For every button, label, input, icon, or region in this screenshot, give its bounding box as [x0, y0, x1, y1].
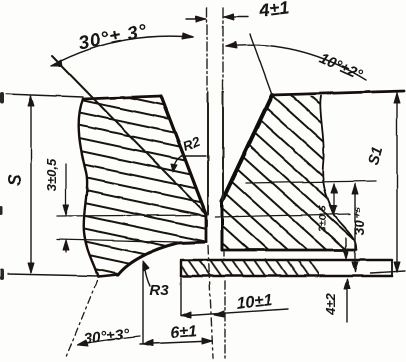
dimension 4±1 [186, 14, 248, 22]
dimension 6±1 [140, 264, 212, 346]
radius label R2 [171, 155, 206, 172]
left groove face [161, 96, 206, 242]
backing strip [181, 260, 392, 276]
svg-text:S: S [5, 174, 25, 186]
svg-text:R3: R3 [149, 282, 169, 299]
dimension 10±1 [181, 278, 288, 318]
dimension S [6, 94, 98, 276]
dimension 4±2 [343, 238, 350, 322]
svg-text:R2: R2 [181, 134, 203, 154]
scan smudge marks left edge [0, 92, 4, 280]
centerline left [207, 8, 213, 358]
radius label R3 [143, 261, 150, 286]
extension line A right [246, 181, 376, 183]
right workpiece [222, 91, 404, 250]
svg-text:10±1: 10±1 [235, 291, 273, 313]
angle 30°±3° bottom [66, 281, 140, 357]
left workpiece [79, 96, 206, 277]
dimension 30+5 [352, 184, 358, 272]
right groove face [222, 95, 272, 250]
svg-text:3±0,5: 3±0,5 [44, 158, 59, 191]
angle 30°±3° top arc [51, 33, 193, 66]
svg-text:S1: S1 [365, 145, 386, 167]
svg-text:30°±3°: 30°±3° [83, 325, 131, 348]
svg-text:30°± 3°: 30°± 3° [77, 21, 149, 55]
svg-text:4±1: 4±1 [257, 0, 290, 21]
bevel angle leg 30deg [52, 56, 206, 214]
dimension 3±0,5 right root face [331, 184, 337, 215]
svg-text:6±1: 6±1 [170, 323, 198, 342]
svg-text:30⁺⁵: 30⁺⁵ [351, 206, 367, 235]
extension line B right [215, 214, 350, 217]
dimension S1 [370, 93, 405, 273]
dimension 3±0,5 [57, 164, 207, 252]
svg-text:3±0,5: 3±0,5 [317, 206, 329, 232]
svg-text:4±2: 4±2 [323, 292, 338, 315]
svg-text:10°±2°: 10°±2° [317, 50, 366, 84]
centerline right [223, 8, 225, 358]
angle 10°±2° [226, 34, 366, 95]
